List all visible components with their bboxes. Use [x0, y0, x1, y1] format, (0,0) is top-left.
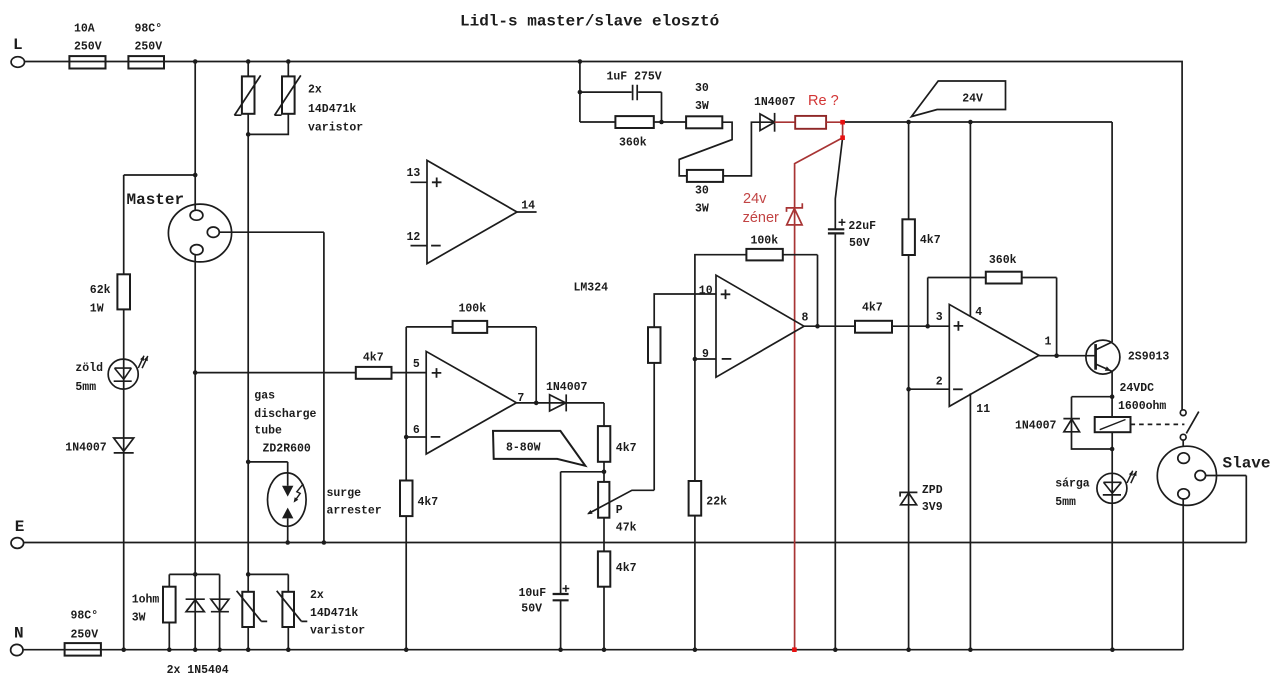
svg-text:7: 7 — [517, 392, 524, 405]
svg-text:1N4007: 1N4007 — [546, 381, 588, 394]
svg-text:12: 12 — [407, 231, 421, 244]
svg-text:50V: 50V — [521, 603, 542, 616]
svg-text:8-80W: 8-80W — [506, 442, 541, 455]
svg-text:zéner: zéner — [743, 210, 779, 226]
svg-text:24V: 24V — [962, 93, 983, 106]
svg-text:22k: 22k — [706, 496, 727, 509]
svg-text:22uF: 22uF — [848, 220, 876, 233]
svg-text:9: 9 — [702, 348, 709, 361]
svg-text:4k7: 4k7 — [920, 234, 941, 247]
svg-text:98C°: 98C° — [71, 609, 99, 622]
svg-text:5: 5 — [413, 358, 420, 371]
svg-text:4: 4 — [975, 306, 982, 319]
svg-text:98C°: 98C° — [135, 23, 163, 36]
svg-text:4k7: 4k7 — [616, 562, 637, 575]
svg-text:1: 1 — [1045, 336, 1052, 349]
svg-text:100k: 100k — [751, 235, 779, 248]
svg-text:1W: 1W — [90, 303, 104, 316]
svg-text:N: N — [14, 625, 24, 643]
svg-text:2x: 2x — [308, 84, 322, 97]
svg-text:14D471k: 14D471k — [310, 607, 358, 620]
svg-text:3V9: 3V9 — [922, 501, 943, 514]
svg-text:E: E — [15, 518, 25, 536]
svg-text:250V: 250V — [71, 629, 99, 642]
svg-text:10: 10 — [699, 285, 713, 298]
svg-text:varistor: varistor — [308, 122, 363, 135]
svg-text:2: 2 — [936, 376, 943, 389]
svg-text:1N4007: 1N4007 — [754, 96, 796, 109]
svg-text:4k7: 4k7 — [363, 351, 384, 364]
svg-text:3W: 3W — [132, 612, 146, 625]
svg-text:Master: Master — [127, 191, 185, 209]
svg-text:3: 3 — [936, 311, 943, 324]
svg-text:62k: 62k — [90, 284, 111, 297]
svg-text:30: 30 — [695, 185, 709, 198]
svg-text:10uF: 10uF — [519, 587, 547, 600]
svg-text:1600ohm: 1600ohm — [1118, 400, 1166, 413]
svg-text:11: 11 — [976, 403, 990, 416]
svg-text:360k: 360k — [989, 254, 1017, 267]
svg-text:100k: 100k — [459, 303, 487, 316]
svg-text:P: P — [616, 504, 623, 517]
svg-text:3W: 3W — [695, 100, 709, 113]
svg-text:sárga: sárga — [1055, 478, 1090, 491]
svg-text:24v: 24v — [743, 191, 767, 207]
svg-text:250V: 250V — [74, 41, 102, 54]
svg-text:10A: 10A — [74, 23, 95, 36]
svg-text:L: L — [13, 36, 23, 54]
svg-text:1uF 275V: 1uF 275V — [607, 71, 662, 84]
svg-text:Slave: Slave — [1223, 455, 1271, 473]
svg-text:4k7: 4k7 — [616, 442, 637, 455]
svg-text:13: 13 — [407, 167, 421, 180]
svg-text:discharge: discharge — [254, 408, 316, 421]
svg-text:LM324: LM324 — [574, 282, 609, 295]
svg-text:2S9013: 2S9013 — [1128, 351, 1170, 364]
svg-text:1N4007: 1N4007 — [65, 442, 107, 455]
svg-text:2x 1N5404: 2x 1N5404 — [167, 664, 229, 677]
svg-text:surge: surge — [327, 487, 362, 500]
svg-text:varistor: varistor — [310, 625, 365, 638]
svg-text:30: 30 — [695, 82, 709, 95]
svg-text:zöld: zöld — [75, 362, 103, 375]
svg-text:1ohm: 1ohm — [132, 594, 160, 607]
svg-text:250V: 250V — [135, 41, 163, 54]
svg-text:24VDC: 24VDC — [1120, 382, 1155, 395]
svg-text:2x: 2x — [310, 589, 324, 602]
svg-text:4k7: 4k7 — [862, 302, 883, 315]
svg-text:ZPD: ZPD — [922, 484, 943, 497]
svg-text:8: 8 — [802, 312, 809, 325]
svg-text:tube: tube — [254, 425, 282, 438]
svg-text:14: 14 — [521, 199, 535, 212]
svg-text:Re ?: Re ? — [808, 93, 839, 109]
svg-text:1N4007: 1N4007 — [1015, 420, 1057, 433]
svg-text:arrester: arrester — [327, 505, 382, 518]
svg-text:5mm: 5mm — [1055, 496, 1076, 509]
svg-text:6: 6 — [413, 424, 420, 437]
svg-text:ZD2R600: ZD2R600 — [263, 442, 311, 455]
svg-text:4k7: 4k7 — [418, 496, 439, 509]
svg-text:47k: 47k — [616, 522, 637, 535]
svg-text:14D471k: 14D471k — [308, 103, 356, 116]
svg-text:5mm: 5mm — [75, 381, 96, 394]
svg-text:50V: 50V — [849, 237, 870, 250]
svg-text:Lidl-s master/slave elosztó: Lidl-s master/slave elosztó — [460, 13, 719, 31]
svg-text:gas: gas — [254, 390, 275, 403]
svg-text:360k: 360k — [619, 136, 647, 149]
svg-text:3W: 3W — [695, 203, 709, 216]
